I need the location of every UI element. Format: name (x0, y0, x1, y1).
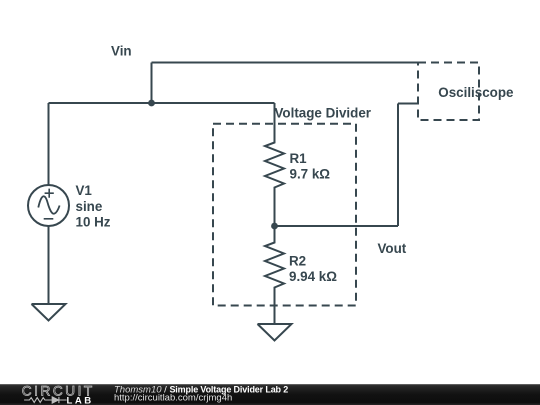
wire net Vin horizontal V1-to-R1 (49, 102, 275, 104)
box Oscilliscope dashed (418, 63, 479, 121)
wire Vout riser vertical (397, 104, 399, 227)
wire V1 bottom lead (48, 226, 50, 304)
svg-text:Osciliscope: Osciliscope (438, 85, 513, 100)
node Vin junction dot (148, 100, 155, 107)
node Vout junction dot (271, 223, 278, 230)
svg-text:V1: V1 (76, 183, 93, 198)
svg-text:9.94 kΩ: 9.94 kΩ (289, 269, 337, 284)
wire stub into oscilloscope (398, 103, 418, 105)
svg-text:Vin: Vin (111, 44, 132, 59)
wire Vin riser vertical (151, 63, 153, 104)
svg-text:R2: R2 (289, 254, 306, 269)
resistor R1 (265, 103, 284, 226)
logo doodle diode (52, 397, 59, 403)
ground at R2 (258, 324, 292, 341)
node Vout junction wire to riser (275, 225, 399, 227)
svg-text:R1: R1 (290, 151, 308, 166)
wire Vin top horizontal to oscilloscope (152, 62, 419, 64)
resistor R2 (265, 226, 284, 324)
box Voltage Divider dashed (213, 124, 356, 306)
footer bar (0, 384, 540, 405)
svg-text:http://circuitlab.com/crjmg4h: http://circuitlab.com/crjmg4h (114, 392, 232, 403)
logo doodle wire (24, 398, 67, 403)
svg-text:10 Hz: 10 Hz (76, 215, 111, 230)
svg-text:LAB: LAB (67, 395, 94, 405)
wire V1 top lead (48, 103, 50, 185)
ground at V1 (32, 304, 66, 321)
voltage source V1 (28, 185, 69, 226)
svg-text:Voltage Divider: Voltage Divider (275, 105, 372, 120)
svg-text:sine: sine (76, 199, 103, 214)
svg-text:9.7 kΩ: 9.7 kΩ (290, 167, 331, 182)
svg-text:Vout: Vout (378, 241, 407, 256)
